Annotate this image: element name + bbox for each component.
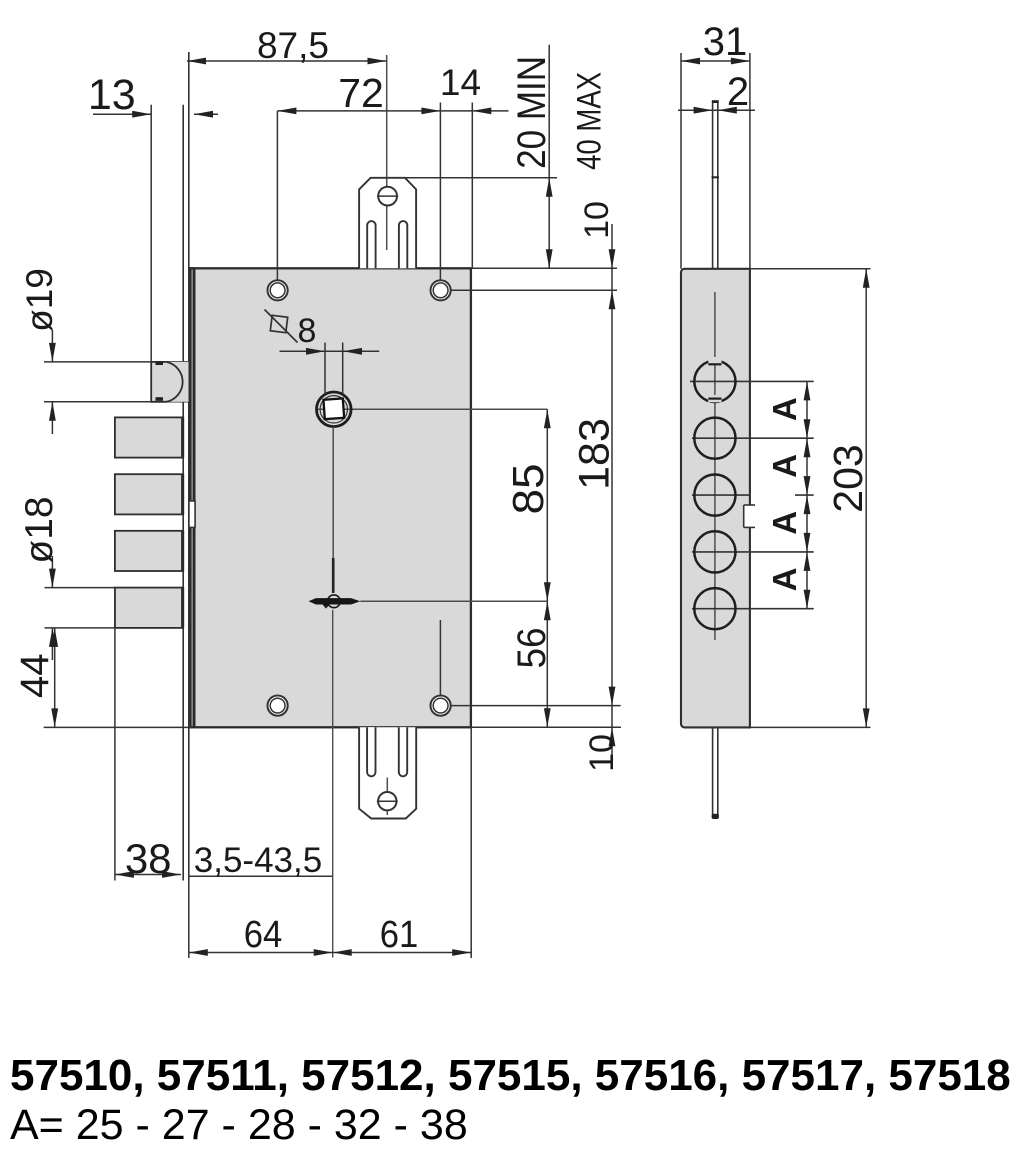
ext line case right top [471, 103, 473, 269]
side hole 4 [694, 531, 735, 572]
dim 44 [54, 628, 56, 728]
dim 14 [472, 108, 491, 115]
spindle hub centerline horizontal [316, 408, 547, 410]
svg-text:38: 38 [125, 835, 172, 882]
dim 13 [93, 113, 151, 115]
dim 87,5 [187, 60, 387, 62]
bottom tab slot left [367, 727, 375, 776]
latch bolt [151, 362, 188, 402]
ext line latch tip [150, 105, 152, 362]
top tab screw hole [378, 187, 397, 206]
svg-text:A: A [766, 397, 803, 421]
side vertical centerline [714, 292, 716, 640]
side faceplate bottom tail [712, 727, 714, 818]
deadbolt 3 [115, 531, 183, 571]
svg-text:13: 13 [88, 71, 136, 119]
dim 38 [115, 874, 181, 876]
bottom holes centerline right [451, 705, 621, 707]
svg-text:3,5-43,5: 3,5-43,5 [194, 841, 322, 880]
dim 64 [189, 952, 333, 954]
svg-text:56: 56 [510, 628, 554, 669]
bottom tab slot right [399, 727, 407, 776]
dim 8 lines [280, 350, 380, 352]
bottom tab screw hole [378, 792, 396, 810]
square symbol diagonal [265, 310, 298, 343]
svg-text:87,5: 87,5 [257, 25, 329, 66]
top holes centerline right [451, 289, 617, 291]
side hole 2 [694, 418, 735, 459]
svg-text:ø18: ø18 [18, 496, 61, 563]
side hole 1 centerline [690, 380, 814, 382]
svg-text:14: 14 [440, 62, 481, 103]
top tab slot right [399, 221, 407, 268]
fixing hole bottom-right [431, 696, 451, 716]
svg-text:85: 85 [504, 464, 553, 515]
svg-text:10: 10 [583, 734, 621, 772]
svg-text:20 MIN: 20 MIN [510, 56, 554, 169]
side hole 5 centerline [692, 608, 814, 610]
lock case front edge (thick) [193, 268, 196, 727]
dim o19 [51, 330, 53, 362]
spindle square hole [323, 398, 344, 419]
top tab centerline [386, 55, 388, 250]
bottom tab centerline [386, 778, 388, 816]
ext lines square [324, 343, 326, 394]
svg-text:57510, 57511, 57512, 57515, 57: 57510, 57511, 57512, 57515, 57516, 57517… [10, 1051, 1011, 1100]
top tab slot left [367, 221, 375, 268]
top mounting tab [359, 178, 416, 268]
svg-text:10: 10 [578, 201, 616, 239]
svg-text:72: 72 [338, 70, 384, 116]
svg-text:44: 44 [13, 653, 57, 698]
strike reference line [371, 177, 557, 179]
deadbolt4 ext lines [45, 587, 115, 589]
side hole 4 centerline [692, 551, 814, 553]
svg-text:8: 8 [298, 312, 317, 350]
dim 3,5-43,5 [189, 875, 333, 877]
side cylinder hole 1 (spindle) [694, 361, 735, 402]
centerline below key [332, 610, 334, 958]
svg-text:40 MAX: 40 MAX [570, 72, 608, 170]
svg-text:31: 31 [703, 20, 748, 64]
svg-text:64: 64 [244, 914, 283, 956]
side view case [681, 269, 750, 728]
fixing hole bottom-left [268, 696, 288, 716]
faceplate back line [188, 52, 190, 881]
fixing hole top-left [268, 280, 288, 300]
svg-text:A: A [766, 454, 803, 478]
deadbolt 1 [115, 417, 183, 457]
side hole 3 centerline [692, 494, 751, 496]
dim A chain [806, 381, 808, 608]
svg-text:ø19: ø19 [19, 268, 60, 332]
ext line bolt left [114, 588, 116, 881]
dim 203 [750, 268, 871, 270]
centerline above bottom-right hole [439, 620, 441, 696]
spindle centerline vertical [332, 427, 334, 558]
case bottom ext left [44, 726, 192, 728]
lock case body (front view) [191, 268, 471, 727]
key centerline right [360, 600, 547, 602]
side hole 5 [694, 588, 735, 629]
ext line hole right [439, 103, 441, 281]
svg-text:183: 183 [571, 418, 619, 490]
spindle hub outer circle [317, 392, 352, 427]
latch bolt extension lines [44, 361, 190, 363]
case top edge left stub [189, 267, 195, 269]
faceplate front line [182, 105, 184, 881]
bottom mounting tab [359, 727, 416, 818]
side hole 3 [694, 475, 735, 516]
svg-text:61: 61 [380, 914, 419, 956]
svg-text:2: 2 [727, 70, 749, 114]
svg-text:A: A [766, 511, 803, 535]
square 8 symbol [270, 315, 287, 332]
dim 2 [678, 109, 755, 111]
dim o18 [51, 556, 53, 588]
dim 31 [681, 60, 750, 62]
svg-text:A: A [766, 568, 803, 592]
hole centerline top edge ext [471, 267, 617, 269]
svg-text:A= 25 - 27 - 28 - 32 - 38: A= 25 - 27 - 28 - 32 - 38 [10, 1101, 468, 1149]
dim 61 [333, 952, 472, 954]
side hole 2 centerline [692, 437, 814, 439]
dim 20MIN 40MAX line [548, 45, 550, 269]
fixing hole top-right [431, 280, 451, 300]
chain dim line right [611, 224, 613, 765]
ext lines 64-61 [188, 881, 190, 959]
key cam symbol [309, 598, 361, 604]
deadbolt 4 [115, 588, 183, 628]
edge notch on case front [189, 501, 195, 528]
case bottom edge ext right [471, 726, 621, 728]
ext lines 31 [680, 53, 682, 269]
svg-text:203: 203 [825, 444, 871, 512]
side notch [744, 505, 751, 527]
dim 72 [277, 110, 508, 112]
ext line hole left [276, 111, 278, 281]
dim 85-56 line [546, 409, 548, 727]
deadbolt 2 [115, 474, 183, 514]
side faceplate top tail [712, 101, 714, 269]
